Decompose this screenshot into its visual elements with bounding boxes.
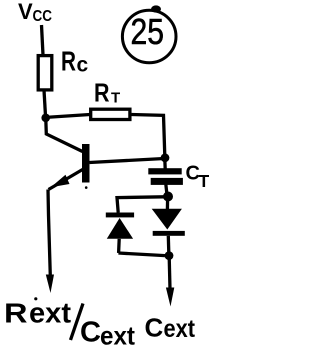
- wire Vcc to Rc: [42, 25, 44, 55]
- wire node B to CT top plate: [163, 159, 167, 169]
- svg-text:C: C: [80, 317, 101, 349]
- wire RT to corner down to node B: [132, 115, 165, 157]
- node D junction dot (bottom of diode pair): [165, 251, 174, 260]
- label Rext/Cext: [4, 297, 135, 350]
- svg-text:CC: CC: [33, 8, 53, 25]
- svg-text:c: c: [77, 54, 89, 77]
- svg-text:T: T: [111, 90, 120, 107]
- wire emitter down to Rext/Cext output: [48, 190, 50, 277]
- wire Rc to node A: [44, 90, 46, 116]
- resistor R_C: [38, 56, 52, 90]
- label RT: [94, 78, 120, 108]
- svg-text:ext: ext: [164, 315, 196, 343]
- svg-text:ext: ext: [29, 298, 71, 330]
- svg-text:V: V: [18, 0, 33, 24]
- svg-text:ext: ext: [100, 321, 135, 351]
- arrowhead to Cext: [166, 288, 174, 307]
- wire base to node B: [90, 159, 163, 163]
- diode D1 (left, cathode bar up, triangle pointing up): [106, 213, 134, 239]
- capacitor CT bottom plate: [151, 178, 183, 185]
- svg-text:R: R: [61, 46, 76, 77]
- transistor Q1 base bar: [82, 144, 90, 183]
- wire bottom of diode pair: [118, 253, 165, 256]
- label Rc: [61, 46, 89, 77]
- arrowhead to Rext/Cext: [46, 275, 54, 294]
- transistor Q1 emitter with arrowhead: [49, 168, 87, 190]
- node A junction dot: [41, 114, 50, 123]
- svg-text:T: T: [199, 171, 210, 191]
- label CT: [186, 163, 210, 192]
- svg-text:25: 25: [131, 11, 165, 52]
- ink speck below transistor bar: [85, 186, 88, 189]
- capacitor CT top plate: [148, 168, 181, 174]
- node C junction dot (top of diode pair): [163, 192, 173, 202]
- wire node D down to Cext output: [168, 257, 172, 289]
- diode D2 (right, triangle pointing down, cathode bar below): [152, 209, 185, 236]
- label Vcc (net VCC): [18, 0, 52, 25]
- wire D1 to bottom wire: [117, 239, 121, 253]
- wire D2 to node D: [167, 236, 171, 253]
- svg-text:C: C: [145, 313, 164, 343]
- svg-text:R: R: [4, 298, 28, 329]
- svg-text:R: R: [94, 78, 110, 108]
- transistor Q1 collector wire from node A: [46, 119, 83, 152]
- resistor R_T: [91, 109, 130, 119]
- wire node C to diode D2: [166, 199, 170, 210]
- wire CT bottom plate to node C: [166, 184, 167, 194]
- label Cext (right output): [145, 313, 196, 344]
- wire node C to diode D1 (top wire + left lead): [117, 197, 164, 213]
- node B junction dot (RT/CT/base): [161, 153, 170, 162]
- figure number 25 in circle: [122, 5, 176, 62]
- wire node A to RT: [46, 115, 90, 118]
